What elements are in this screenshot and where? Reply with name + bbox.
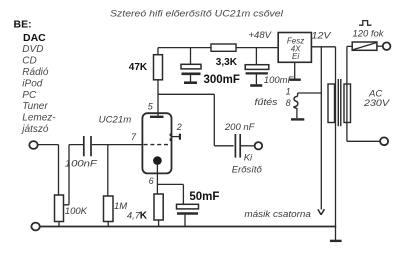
wire cathode junction to 50mF — [157, 184, 183, 204]
svg-text:fűtés: fűtés — [255, 97, 278, 108]
top supply rail — [158, 47, 278, 49]
wire 300mF to ground — [190, 75, 192, 82]
wire down to 1M — [107, 145, 109, 196]
wire fuse to terminal — [377, 45, 383, 47]
input terminal J1 — [29, 141, 37, 149]
grid dashed line — [144, 144, 170, 146]
svg-text:4,7: 4,7 — [127, 211, 141, 222]
fuse 120 fok — [352, 42, 377, 50]
svg-text:200 nF: 200 nF — [224, 122, 256, 133]
svg-text:100K: 100K — [65, 206, 88, 217]
ground symbol bar — [330, 240, 342, 242]
wire heater to bottom bar — [296, 108, 298, 118]
ground bar 100mF — [250, 84, 262, 87]
resistor 100K — [55, 195, 64, 222]
svg-text:CD: CD — [22, 56, 36, 67]
capacitor 300mF wire stub — [190, 48, 192, 65]
svg-text:Rádió: Rádió — [22, 67, 49, 78]
svg-text:12V: 12V — [312, 31, 333, 42]
resistor 1M — [104, 196, 114, 222]
fuse diagonal — [353, 43, 376, 50]
svg-text:Lemez-: Lemez- — [22, 113, 56, 124]
svg-text:+48V: +48V — [249, 30, 273, 41]
svg-text:PC: PC — [22, 90, 37, 101]
heater squiggle — [294, 96, 298, 108]
svg-text:Ki: Ki — [244, 153, 253, 164]
bar under Fesz — [289, 78, 301, 80]
transformer secondary winding — [328, 84, 335, 123]
svg-text:3,3K: 3,3K — [216, 57, 238, 68]
svg-text:másik csatorna: másik csatorna — [244, 209, 311, 220]
transformer core — [338, 79, 341, 126]
capacitor 200nF — [235, 134, 240, 158]
wire 100K tap to coupling cap — [64, 145, 84, 205]
svg-text:300mF: 300mF — [204, 74, 240, 86]
mains terminal top — [383, 42, 391, 50]
tube U1 UC21m envelope — [142, 113, 171, 173]
wire 12V rail — [311, 46, 335, 48]
wire primary top to fuse — [347, 46, 352, 141]
mains terminal bottom — [380, 137, 388, 145]
wire other channel branch — [320, 47, 322, 210]
pin 2 stub — [172, 136, 180, 138]
svg-text:Tuner: Tuner — [22, 101, 48, 112]
wire 4,7K to ground rail — [158, 220, 160, 227]
svg-text:1: 1 — [286, 87, 291, 97]
bar under heater — [291, 118, 304, 120]
wire plate tap to output — [158, 94, 234, 146]
wire input to 100K — [38, 145, 59, 196]
power supply box Fesz 4X Ei — [278, 33, 311, 63]
transformer primary winding — [344, 84, 351, 123]
capacitor 300mF bottom plate — [182, 73, 201, 76]
wire 100K to ground rail — [58, 222, 60, 227]
wire 50mF to ground rail — [184, 215, 186, 227]
capacitor 300mF top plate — [181, 64, 201, 69]
screen dashes inside tube — [169, 134, 171, 142]
ground bar 300mF — [184, 81, 197, 84]
wire heater feed from 12V branch — [298, 93, 322, 96]
wire 12V down through transformer to ground — [335, 47, 337, 240]
svg-text:6: 6 — [149, 176, 154, 186]
capacitor 100mF top plate — [245, 65, 269, 70]
capacitor 50mF bottom plate — [177, 212, 198, 214]
wire 200nF to output terminal — [241, 145, 255, 147]
resistor 47K — [154, 55, 163, 80]
ground terminal J2 — [31, 223, 39, 231]
cathode wire pin 6 — [156, 163, 158, 194]
wire grid node — [92, 144, 143, 146]
arrowhead other channel — [318, 209, 325, 215]
svg-text:játszó: játszó — [20, 124, 49, 135]
capacitor 100mF wire stub — [255, 48, 257, 65]
svg-text:230V: 230V — [363, 98, 391, 109]
ground rail — [40, 226, 336, 228]
wire 100mF to ground — [255, 75, 257, 85]
wire 1M to ground rail — [107, 222, 109, 227]
wire primary bottom to mains terminal — [347, 140, 380, 142]
svg-text:UC21m: UC21m — [99, 115, 132, 126]
svg-text:DVD: DVD — [22, 44, 43, 55]
capacitor 50mF top plate — [177, 204, 199, 209]
svg-text:BE:: BE: — [14, 19, 32, 31]
capacitor 100nF input — [84, 136, 91, 156]
svg-text:120 fok: 120 fok — [353, 29, 385, 40]
svg-text:Sztereó hifi előerősítő UC21m: Sztereó hifi előerősítő UC21m csővel — [110, 8, 284, 18]
svg-text:K: K — [140, 211, 148, 222]
pin 2 bar — [179, 134, 181, 140]
resistor 3,3K — [211, 44, 236, 51]
wire plate: rail to tube pin5 — [157, 48, 159, 117]
capacitor 100mF bottom plate — [246, 72, 268, 74]
svg-text:iPod: iPod — [22, 78, 42, 89]
svg-text:Ei: Ei — [292, 52, 299, 61]
svg-text:Erősítő: Erősítő — [232, 164, 263, 175]
svg-text:50mF: 50mF — [189, 191, 219, 203]
output terminal Ki — [255, 142, 263, 149]
anode plate bar — [150, 116, 164, 118]
svg-text:8: 8 — [286, 98, 291, 108]
resistor 4,7K — [154, 194, 163, 220]
wire Fesz bottom stub — [294, 62, 296, 78]
svg-text:100nF: 100nF — [65, 159, 98, 170]
svg-text:2: 2 — [176, 122, 182, 132]
cathode dot — [153, 156, 162, 165]
svg-text:DAC: DAC — [23, 32, 46, 44]
svg-text:47K: 47K — [129, 62, 148, 73]
svg-text:1M: 1M — [114, 201, 127, 212]
pulse symbol — [359, 21, 371, 26]
